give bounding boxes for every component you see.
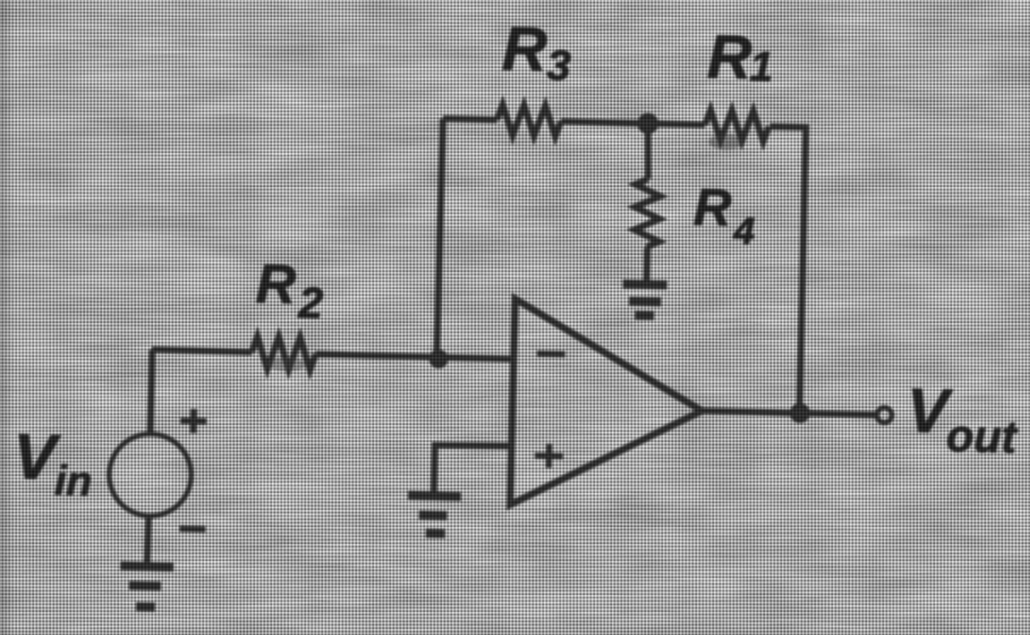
ground (below R4) — [622, 284, 667, 316]
wire: R1 to top-right corner and down to output node — [763, 126, 806, 413]
ground (non-inverting input) — [407, 495, 461, 534]
wire: R2 to inverting input of op-amp — [316, 354, 515, 359]
resistor R1 — [705, 110, 770, 142]
node: inverting input junction dot — [429, 349, 448, 368]
node: R3/R1/R4 junction dot — [637, 113, 659, 135]
resistor R3 — [497, 105, 562, 137]
wire: Vin vertical up to the main line — [150, 349, 152, 433]
ink smudge under R1 — [709, 133, 743, 150]
op-amp non-inverting input plus sign — [535, 444, 564, 469]
resistor R4 — [634, 179, 661, 248]
node: output junction dot — [790, 403, 810, 423]
wire: left vertical from top rail down to inverting node — [437, 118, 443, 357]
voltage source Vin (circle) — [108, 433, 192, 517]
resistor R2 — [251, 336, 316, 370]
source minus sign — [179, 525, 205, 532]
wire: Vin bottom to ground — [147, 516, 149, 562]
wire: top rail left segment (left corner to R3) — [443, 118, 497, 119]
wire: R3 to junction node — [561, 121, 648, 123]
wire: op-amp output to terminal — [702, 411, 878, 415]
ground (below Vin) — [119, 566, 173, 608]
wire: non-inverting input to ground corner — [434, 444, 513, 494]
op-amp inverting input minus sign — [537, 351, 565, 358]
wire: junction to R1 — [648, 123, 705, 124]
source plus sign — [180, 409, 207, 434]
wire: junction down to R4 — [647, 123, 650, 179]
ink smudge under R2 — [266, 357, 306, 372]
op-amp U1 triangle — [510, 299, 704, 510]
terminal Vout (open circle) — [877, 407, 892, 422]
wire: R4 to ground — [643, 247, 650, 281]
wire: main input line from Vin corner through R2 gap start — [152, 349, 252, 352]
